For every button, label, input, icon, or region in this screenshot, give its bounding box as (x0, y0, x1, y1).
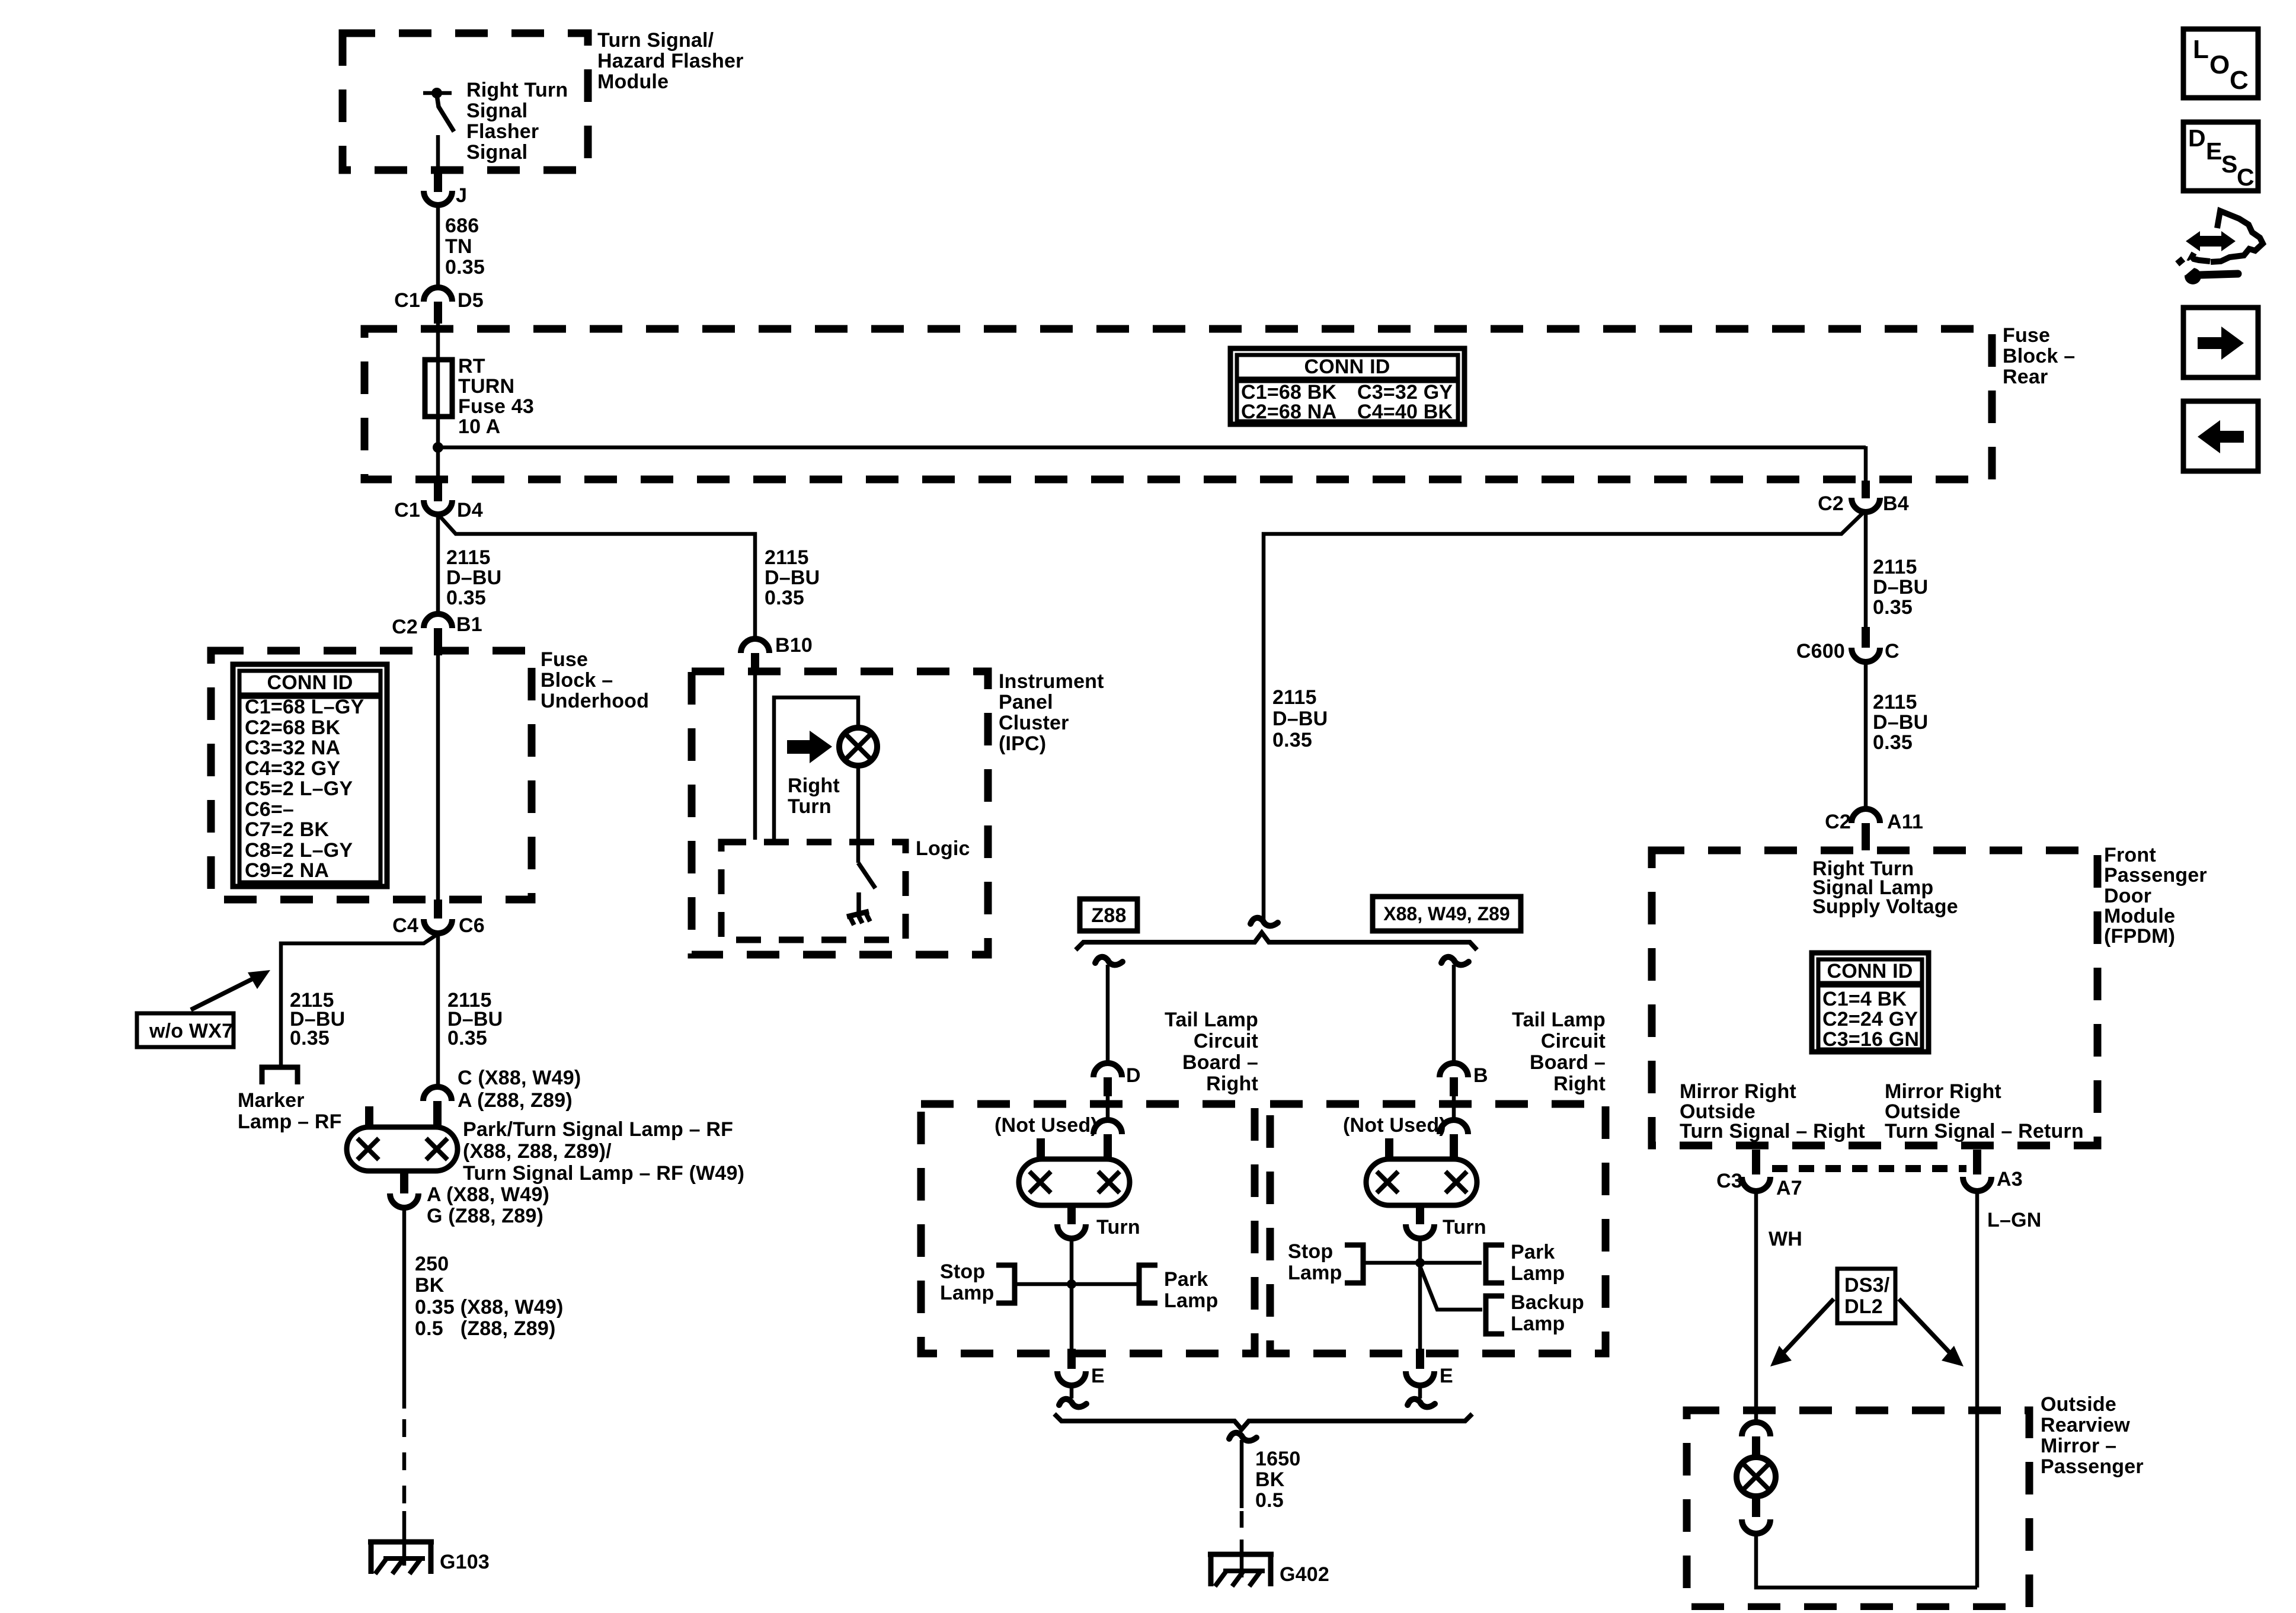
wire: lamp return to A3 (1756, 1534, 1977, 1588)
icon: DESC box (2183, 122, 2258, 191)
svg-text:C5=2 L–GY: C5=2 L–GY (245, 777, 353, 800)
logic ground symbol (847, 892, 870, 925)
connector C600 / C (1796, 627, 1900, 663)
module box: Turn Signal / Hazard Flasher Module (343, 33, 588, 170)
svg-text:B4: B4 (1883, 492, 1909, 515)
label: Logic (916, 837, 970, 860)
ground G103 (368, 1542, 490, 1574)
svg-text:Module: Module (2104, 905, 2175, 927)
label: Front Passenger Door Module (FPDM) (2104, 844, 2207, 948)
svg-text:TN: TN (445, 235, 472, 258)
wire: fuse output (436, 415, 440, 481)
svg-text:B1: B1 (456, 613, 482, 636)
hook below brace (1229, 1433, 1256, 1441)
label: Right Turn (788, 775, 840, 818)
svg-text:Block –: Block – (2003, 345, 2075, 367)
connector above mirror lamp (1742, 1422, 1770, 1460)
svg-text:Passenger: Passenger (2041, 1455, 2144, 1478)
svg-text:C600: C600 (1796, 640, 1845, 663)
hook at right branch top (1441, 957, 1469, 965)
label: 2115 D-BU 0.35 (marker branch) (290, 989, 345, 1049)
svg-text:A (Z88, Z89): A (Z88, Z89) (458, 1089, 573, 1112)
svg-text:686: 686 (445, 215, 479, 237)
marker lamp terminal fork (262, 1067, 298, 1084)
svg-text:Park: Park (1164, 1268, 1208, 1291)
svg-text:Right: Right (1206, 1073, 1258, 1095)
svg-text:Park/Turn Signal Lamp – RF: Park/Turn Signal Lamp – RF (463, 1118, 733, 1141)
wire: left branch to D (1106, 965, 1110, 1063)
svg-text:C2=68 NA: C2=68 NA (1241, 401, 1336, 423)
svg-text:RT: RT (458, 355, 485, 377)
svg-text:0.35: 0.35 (1873, 596, 1913, 619)
label: 2115 D-BU 0.35 (main) (447, 989, 503, 1049)
indicator lamp (circle with X) (839, 728, 877, 766)
splice hook (wire end above brace) (1251, 918, 1278, 926)
svg-text:B: B (1473, 1064, 1488, 1087)
svg-text:A11: A11 (1887, 811, 1923, 833)
svg-text:C3=16 GN: C3=16 GN (1822, 1028, 1919, 1051)
svg-text:Turn: Turn (1096, 1216, 1140, 1238)
fuse RT TURN Fuse 43 10A (425, 360, 452, 417)
svg-text:Flasher: Flasher (466, 120, 539, 143)
svg-text:C6: C6 (459, 914, 485, 937)
net label box: X88, W49, Z89 (1373, 897, 1521, 931)
module box: Fuse Block - Underhood (211, 651, 532, 900)
svg-text:Passenger: Passenger (2104, 864, 2207, 886)
connector C2 / A11 (1825, 809, 1923, 850)
svg-text:TURN: TURN (458, 375, 514, 398)
right turn indicator arrow (787, 731, 832, 763)
connector C1 / D5 (394, 287, 484, 324)
connector D (1093, 1063, 1141, 1096)
svg-text:Turn Signal – Return: Turn Signal – Return (1885, 1120, 2084, 1142)
label: 686 TN 0.35 (445, 215, 485, 279)
svg-text:C2: C2 (1825, 811, 1851, 833)
svg-text:X88, W49, Z89: X88, W49, Z89 (1383, 903, 1510, 924)
CONN ID table (FPDM) (1812, 953, 1929, 1052)
logic box (721, 842, 906, 940)
label: 250 BK 0.35 / 0.5 (415, 1253, 564, 1340)
label: Park/Turn Signal Lamp - RF (463, 1118, 744, 1185)
svg-text:Turn Signal/: Turn Signal/ (597, 29, 714, 52)
label: WH (1769, 1228, 1802, 1250)
lamp: tail lamp right (dual filament) (1366, 1159, 1477, 1205)
wire: B4 down to C600 (1864, 511, 1868, 629)
svg-text:Mirror Right: Mirror Right (1885, 1080, 2001, 1103)
terminal: Park Lamp (left) (1139, 1265, 1157, 1303)
svg-text:C3=32 NA: C3=32 NA (245, 737, 340, 759)
svg-text:L: L (2193, 35, 2209, 64)
svg-text:Rear: Rear (2003, 366, 2048, 388)
svg-text:0.35: 0.35 (1272, 729, 1312, 751)
svg-text:Lamp: Lamp (940, 1282, 994, 1304)
svg-text:2115: 2115 (1272, 686, 1317, 709)
svg-text:C1=4 BK: C1=4 BK (1822, 988, 1907, 1010)
svg-text:Z88: Z88 (1091, 904, 1126, 927)
svg-text:C2: C2 (1818, 492, 1844, 515)
lamp: tail lamp left (dual filament) (1019, 1159, 1130, 1205)
wire: B into lamp connector (1452, 1096, 1456, 1121)
junction node (left lamp) (1067, 1279, 1076, 1289)
svg-text:(FPDM): (FPDM) (2104, 925, 2175, 948)
connector at right lamp (Turn pin) (1440, 1120, 1468, 1160)
label: 2115 D-BU 0.35 (left) (446, 546, 501, 609)
svg-text:C (X88, W49): C (X88, W49) (458, 1067, 581, 1089)
svg-text:Underhood: Underhood (541, 690, 649, 712)
terminal: Park Lamp (right) (1486, 1245, 1504, 1283)
connector A3 (1963, 1150, 2023, 1191)
label: 2115 D-BU 0.35 (IPC branch) (765, 546, 820, 609)
svg-text:Tail Lamp: Tail Lamp (1165, 1009, 1258, 1031)
svg-text:0.35 (X88, W49): 0.35 (X88, W49) (415, 1296, 564, 1318)
svg-text:DL2: DL2 (1844, 1295, 1883, 1318)
svg-text:(X88, Z88, Z89)/: (X88, Z88, Z89)/ (463, 1140, 612, 1163)
wire: A7 down (WH) (1754, 1191, 1758, 1423)
svg-text:G (Z88, Z89): G (Z88, Z89) (427, 1205, 543, 1227)
connector below mirror lamp (1742, 1493, 1770, 1534)
junction node (right lamp) (1415, 1258, 1425, 1268)
svg-text:Block –: Block – (541, 669, 613, 692)
label: Right Turn Signal Lamp Supply Voltage (1812, 857, 1958, 918)
svg-text:250: 250 (415, 1253, 449, 1275)
svg-text:Turn Signal – Right: Turn Signal – Right (1680, 1120, 1865, 1142)
connector C2 / B1 (392, 613, 482, 655)
hook at left branch top (1095, 957, 1123, 965)
label: Tail Lamp Circuit Board - Right (left) (1165, 1009, 1258, 1095)
svg-text:CONN ID: CONN ID (267, 671, 353, 694)
label: Park Lamp (left) (1164, 1268, 1218, 1312)
svg-text:D–BU: D–BU (1272, 708, 1328, 730)
svg-text:Park: Park (1511, 1241, 1555, 1263)
label: Right Turn Signal Flasher Signal (466, 79, 568, 164)
svg-text:Lamp – RF: Lamp – RF (238, 1110, 342, 1133)
icon: left arrow box (2183, 401, 2258, 471)
label: Outside Rearview Mirror - Passenger (2041, 1393, 2144, 1478)
svg-text:0.5 (Z88, Z89): 0.5 (Z88, Z89) (415, 1317, 556, 1340)
svg-text:Turn Signal Lamp – RF (W49): Turn Signal Lamp – RF (W49) (463, 1162, 744, 1185)
wire below E (left) (1070, 1385, 1074, 1398)
svg-text:Mirror –: Mirror – (2041, 1435, 2116, 1457)
svg-text:Board –: Board – (1530, 1051, 1606, 1074)
svg-text:10 A: 10 A (458, 415, 500, 438)
svg-text:Rearview: Rearview (2041, 1414, 2130, 1436)
wire through underhood box (436, 654, 440, 902)
svg-text:Marker: Marker (238, 1089, 305, 1112)
svg-text:Logic: Logic (916, 837, 970, 860)
wire: branch to marker lamp (281, 935, 436, 1065)
label: 2115 D-BU 0.35 (B4) (1873, 556, 1928, 619)
svg-text:Panel: Panel (999, 691, 1053, 713)
connector E (right) (1406, 1349, 1453, 1387)
label: Marker Lamp - RF (238, 1089, 342, 1133)
connector A/G below lamp (390, 1171, 549, 1227)
svg-text:J: J (456, 184, 467, 207)
svg-text:Backup: Backup (1511, 1291, 1584, 1314)
svg-text:E: E (1440, 1365, 1453, 1387)
connector Turn below right lamp (1406, 1205, 1486, 1238)
wire: circuit 686 TN 0.35 (436, 205, 440, 288)
wire below E (right) (1418, 1385, 1422, 1398)
w/o WX7 callout box (137, 1013, 234, 1047)
svg-text:C4: C4 (392, 914, 418, 937)
label: 1650 BK 0.5 (1255, 1448, 1300, 1512)
label: Stop Lamp (right) (1288, 1240, 1342, 1284)
brace: split to two branches (1076, 933, 1477, 950)
net label box: Z88 (1080, 899, 1137, 931)
svg-text:D4: D4 (457, 499, 483, 521)
svg-text:C2=68 BK: C2=68 BK (245, 716, 341, 739)
CONN ID table (Fuse Block - Underhood) (233, 664, 387, 886)
wire: 250 BK ground wire (402, 1208, 407, 1409)
svg-text:D–BU: D–BU (1873, 711, 1928, 734)
svg-text:D: D (2188, 124, 2206, 152)
svg-text:(Not Used): (Not Used) (994, 1114, 1098, 1137)
junction node (433, 442, 443, 453)
label: RT TURN Fuse 43 10 A (458, 355, 534, 438)
module box: Tail Lamp Circuit Board - Right (left box) (921, 1104, 1255, 1353)
svg-text:D: D (1126, 1064, 1141, 1087)
wire: right lamp to junction (1418, 1238, 1422, 1263)
svg-text:C4=32 GY: C4=32 GY (245, 757, 340, 780)
svg-text:Fuse 43: Fuse 43 (458, 395, 534, 418)
svg-text:C: C (2230, 66, 2249, 95)
hook below E (left) (1059, 1399, 1086, 1407)
module box: Outside Rearview Mirror - Passenger (1687, 1410, 2029, 1607)
brace: merge E wires (1054, 1414, 1472, 1429)
stub: not used pin (right lamp) (1385, 1138, 1393, 1160)
svg-text:C3: C3 (1716, 1170, 1742, 1192)
connector C3 / A7 (1716, 1150, 1802, 1199)
wire: junction down to E (right) (1418, 1263, 1422, 1350)
svg-text:Right Turn: Right Turn (466, 79, 568, 101)
terminal: Backup Lamp (1486, 1296, 1504, 1334)
wire: dashed continuation to G103 (402, 1419, 407, 1505)
svg-text:0.35: 0.35 (445, 256, 485, 279)
svg-text:S: S (2221, 151, 2237, 178)
svg-text:0.35: 0.35 (765, 587, 804, 609)
arrow from w/o WX7 to wire (191, 970, 270, 1010)
module box: Tail Lamp Circuit Board - Right (right box) (1270, 1104, 1606, 1353)
svg-text:0.35: 0.35 (447, 1027, 487, 1049)
svg-text:2115: 2115 (446, 546, 491, 569)
module box: Instrument Panel Cluster (IPC) (692, 671, 988, 955)
icon: LOC box (2183, 29, 2258, 98)
svg-text:C1: C1 (394, 289, 420, 312)
switch blade in logic (858, 863, 875, 888)
svg-text:0.35: 0.35 (290, 1027, 330, 1049)
icon: right arrow box (2183, 308, 2258, 377)
connector C1 / D4 (394, 480, 483, 521)
svg-text:D5: D5 (458, 289, 484, 312)
svg-text:Fuse: Fuse (541, 648, 588, 671)
wire: stop/park crossbar (right) (1364, 1261, 1482, 1265)
wire: A3 down (L-GN) (1975, 1191, 1980, 1588)
wire: C600 to A11 (1864, 662, 1868, 809)
svg-text:Right: Right (788, 775, 840, 797)
svg-text:Circuit: Circuit (1541, 1030, 1606, 1052)
svg-text:C9=2 NA: C9=2 NA (245, 859, 329, 882)
hook below E (right) (1408, 1399, 1435, 1407)
svg-text:Mirror Right: Mirror Right (1680, 1080, 1796, 1103)
svg-text:DS3/: DS3/ (1844, 1274, 1890, 1297)
wire: main 2115 down (436, 514, 440, 614)
svg-text:2115: 2115 (1873, 691, 1917, 713)
svg-text:Signal: Signal (466, 100, 527, 122)
svg-text:Lamp: Lamp (1511, 1313, 1565, 1335)
svg-text:Fuse: Fuse (2003, 324, 2050, 347)
terminal: Stop Lamp (left) (996, 1265, 1015, 1303)
label: Turn Signal/Hazard Flasher Module (597, 29, 744, 93)
connector B10 (IPC) (741, 634, 813, 674)
svg-text:C2: C2 (392, 616, 418, 638)
svg-text:D–BU: D–BU (1873, 576, 1928, 599)
wire into fuse (436, 324, 440, 415)
wire: bus to tail lamps (1264, 512, 1864, 920)
icon: vehicle with arrows and wrench (2175, 211, 2263, 284)
svg-text:E: E (2206, 137, 2222, 165)
svg-text:C7=2 BK: C7=2 BK (245, 818, 329, 841)
label: Fuse Block - Underhood (541, 648, 649, 712)
svg-text:Stop: Stop (1288, 1240, 1333, 1263)
svg-text:Front: Front (2104, 844, 2156, 866)
connector B (1440, 1063, 1488, 1096)
svg-text:BK: BK (1255, 1468, 1285, 1491)
svg-text:0.5: 0.5 (1255, 1489, 1284, 1512)
lamp: Park/Turn Signal Lamp - RF (dual filament) (347, 1106, 458, 1171)
CONN ID table (Fuse Block - Rear) (1230, 348, 1464, 424)
arrow: DS3/DL2 to L-GN wire (1899, 1299, 1964, 1366)
lamp: mirror turn signal (circle with X) (1737, 1457, 1776, 1496)
label: L-GN (1987, 1209, 2041, 1231)
connector C2 / B4 (1818, 481, 1909, 515)
connector C4 / C6 (392, 900, 485, 937)
svg-text:(IPC): (IPC) (999, 732, 1046, 755)
stub: not used pin (left lamp) (1037, 1138, 1045, 1160)
wire: D into lamp connector (1106, 1096, 1110, 1121)
svg-text:Hazard Flasher: Hazard Flasher (597, 50, 744, 72)
terminal: Stop Lamp (right) (1345, 1245, 1363, 1283)
label: 2115 D-BU 0.35 (tail branch) (1272, 686, 1328, 751)
connector at left lamp (Turn pin) (1093, 1120, 1122, 1160)
connector E (left) (1057, 1349, 1105, 1387)
svg-text:O: O (2209, 50, 2230, 79)
label: Stop Lamp (left) (940, 1260, 994, 1304)
wire: switch output (436, 135, 440, 174)
svg-text:WH: WH (1769, 1228, 1802, 1250)
svg-text:A (X88, W49): A (X88, W49) (427, 1183, 549, 1206)
svg-text:A3: A3 (1997, 1168, 2023, 1190)
svg-text:G103: G103 (440, 1551, 490, 1573)
wire: lamp supply loop (774, 697, 858, 840)
label: Tail Lamp Circuit Board - Right (right) (1512, 1009, 1606, 1095)
wire: diagonal to backup lamp (1420, 1266, 1482, 1310)
svg-text:Signal: Signal (466, 141, 527, 164)
wire: lamp to logic switch (856, 766, 861, 863)
label: 2115 D-BU 0.35 (C600) (1873, 691, 1928, 754)
svg-text:C: C (2237, 164, 2255, 191)
svg-text:CONN ID: CONN ID (1304, 356, 1390, 378)
svg-text:Turn: Turn (1443, 1216, 1486, 1238)
switch: Right Turn Signal Flasher contact (423, 88, 454, 132)
label: Mirror Right Outside Turn Signal - Return (1885, 1080, 2084, 1142)
svg-text:Lamp: Lamp (1164, 1289, 1218, 1312)
svg-text:C4=40 BK: C4=40 BK (1357, 401, 1453, 423)
dotted connector face line (1772, 1165, 1966, 1172)
connector C/A at park/turn lamp (423, 1067, 581, 1127)
wire: branch to IPC B10 (439, 516, 755, 639)
svg-text:D–BU: D–BU (765, 567, 820, 589)
wire: left lamp to junction (1070, 1238, 1074, 1284)
svg-text:Door: Door (2104, 885, 2151, 907)
wire: junction down to E (left) (1070, 1284, 1074, 1350)
svg-text:Outside: Outside (2041, 1393, 2116, 1416)
label: Fuse Block - Rear (2003, 324, 2075, 388)
svg-text:0.35: 0.35 (1873, 731, 1913, 754)
svg-text:C2=24 GY: C2=24 GY (1822, 1008, 1918, 1030)
svg-text:Cluster: Cluster (999, 712, 1069, 734)
connector Turn below left lamp (1057, 1205, 1140, 1238)
svg-text:0.35: 0.35 (446, 587, 486, 609)
svg-text:Tail Lamp: Tail Lamp (1512, 1009, 1606, 1031)
svg-text:2115: 2115 (1873, 556, 1917, 578)
svg-text:C: C (1885, 640, 1900, 663)
svg-text:1650: 1650 (1255, 1448, 1300, 1470)
module box: Fuse Block - Rear (364, 329, 1992, 479)
svg-text:Board –: Board – (1182, 1051, 1258, 1074)
wire: bus drop to B4 (1864, 446, 1868, 482)
svg-text:CONN ID: CONN ID (1827, 960, 1913, 982)
svg-text:D–BU: D–BU (446, 567, 501, 589)
callout box: DS3/DL2 (1837, 1269, 1895, 1323)
wire: main down to park/turn lamp (436, 934, 440, 1087)
svg-text:G402: G402 (1280, 1563, 1329, 1586)
wire: bus to B4 (438, 446, 1866, 450)
wire: 1650 BK 0.5 (1240, 1440, 1244, 1508)
svg-text:C1: C1 (394, 499, 420, 521)
svg-text:(Not Used): (Not Used) (1343, 1114, 1446, 1137)
svg-text:A7: A7 (1776, 1177, 1802, 1199)
wire: B10 into logic (753, 674, 757, 840)
svg-text:BK: BK (415, 1274, 445, 1297)
svg-text:B10: B10 (775, 634, 813, 657)
svg-text:C1=68 L–GY: C1=68 L–GY (245, 696, 364, 718)
wire: dashed to G402 (1240, 1511, 1244, 1541)
svg-text:2115: 2115 (765, 546, 809, 569)
label: Backup Lamp (1511, 1291, 1584, 1335)
svg-text:Right: Right (1553, 1073, 1606, 1095)
svg-text:C6=–: C6=– (245, 798, 294, 821)
svg-text:Stop: Stop (940, 1260, 985, 1283)
wire: right branch to B (1452, 965, 1456, 1063)
svg-text:Lamp: Lamp (1511, 1262, 1565, 1285)
connector J (424, 172, 467, 207)
svg-text:E: E (1091, 1365, 1105, 1387)
module box: Front Passenger Door Module (FPDM) (1652, 850, 2097, 1145)
svg-text:L–GN: L–GN (1987, 1209, 2041, 1231)
svg-text:Circuit: Circuit (1194, 1030, 1258, 1052)
label: Instrument Panel Cluster (IPC) (999, 670, 1104, 755)
svg-text:Turn: Turn (788, 795, 832, 818)
label: Mirror Right Outside Turn Signal - Right (1680, 1080, 1865, 1142)
ground G402 (1208, 1554, 1329, 1586)
svg-text:Supply Voltage: Supply Voltage (1812, 895, 1958, 918)
label: (Not Used) left (994, 1114, 1098, 1137)
label: (Not Used) right (1343, 1114, 1446, 1137)
svg-text:w/o WX7: w/o WX7 (149, 1020, 233, 1042)
svg-text:Module: Module (597, 71, 669, 93)
svg-text:C8=2 L–GY: C8=2 L–GY (245, 839, 353, 862)
wire: stop/park crossbar (left) (1016, 1282, 1138, 1286)
